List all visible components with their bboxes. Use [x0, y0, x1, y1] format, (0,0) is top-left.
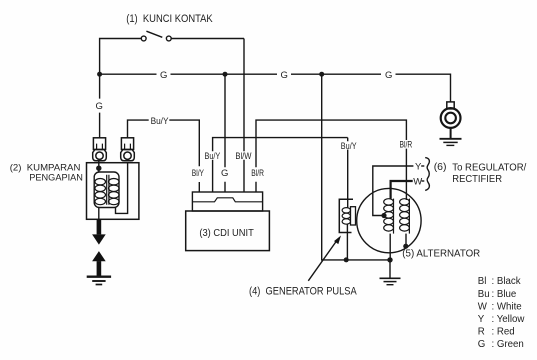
node right coil case dot	[403, 244, 408, 249]
spark gap arrow up	[92, 251, 106, 276]
wire switch to Bl/W drop	[171, 38, 244, 40]
node junction G left	[97, 72, 102, 77]
node junction G mid	[223, 72, 228, 77]
svg-text:G: G	[478, 339, 486, 350]
svg-text:PENGAPIAN: PENGAPIAN	[29, 173, 83, 184]
switch S1 blade	[146, 31, 162, 37]
alternator case circle	[357, 188, 421, 252]
wire G drop to coil	[99, 74, 101, 138]
svg-text:Bl/W: Bl/W	[235, 151, 251, 162]
brace regulator group	[425, 158, 429, 191]
wire Y dash to brace	[421, 165, 424, 167]
svg-text:: Green: : Green	[492, 339, 524, 350]
coil T1 winding outline	[94, 172, 119, 208]
wire Bl/W switch to CDI	[243, 39, 245, 193]
wire Bu/Y drop to pulse generator	[347, 138, 349, 208]
wire Bu/Y CDI to pulse generator	[213, 138, 348, 192]
svg-text:Bu/Y: Bu/Y	[341, 141, 357, 152]
svg-text:: Yellow: : Yellow	[492, 314, 526, 325]
ignition coil T1 box	[87, 163, 139, 220]
alternator right coil	[408, 199, 410, 234]
wire G CDI pin	[224, 74, 226, 192]
svg-text:: Blue: : Blue	[492, 289, 517, 300]
svg-text:(6): (6)	[434, 161, 447, 173]
wire alternator left coil to ground	[389, 234, 391, 260]
svg-text:Bu: Bu	[478, 289, 490, 300]
wire Bl/Y pin stub	[198, 182, 200, 192]
ring terminal ground top right	[447, 102, 454, 109]
CDI connector latch	[192, 198, 262, 202]
pulse generator core	[351, 207, 356, 225]
wire main G bus	[100, 74, 451, 102]
pulse generator bracket	[339, 199, 353, 232]
node junction alternator ground	[387, 257, 392, 262]
svg-text:G: G	[160, 70, 167, 81]
svg-text:W: W	[413, 176, 422, 187]
spark gap arrow down	[92, 219, 106, 244]
switch S1 contact left	[141, 36, 146, 41]
svg-text:RECTIFIER: RECTIFIER	[452, 173, 502, 185]
coil T1 core	[107, 175, 109, 205]
svg-text:G: G	[221, 168, 228, 179]
ground under spark gap	[87, 277, 111, 285]
node coil junction dot	[96, 166, 101, 171]
svg-text:Y: Y	[478, 314, 485, 325]
wire Bl/R CDI to alternator	[256, 120, 406, 200]
ground under ring terminal	[440, 139, 462, 146]
svg-text:Y: Y	[415, 161, 422, 172]
node Y tap dot	[381, 213, 386, 218]
node junction pulse ground	[344, 257, 349, 262]
pulse generator coil loops	[342, 208, 350, 225]
ground below alternator	[389, 260, 391, 278]
coil T1 primary loops	[95, 179, 106, 205]
svg-text:(3) CDI UNIT: (3) CDI UNIT	[199, 227, 254, 239]
wire pulse generator exit	[346, 224, 348, 260]
svg-text:W: W	[478, 301, 488, 312]
legend wire colours	[478, 276, 526, 350]
svg-text:Bl/Y: Bl/Y	[192, 168, 205, 179]
connector terminal right of ignition coil	[121, 138, 135, 161]
svg-text:G: G	[281, 70, 288, 81]
wire Bu/Y coil to CDI	[128, 120, 200, 166]
svg-text:R: R	[478, 327, 485, 338]
svg-text:Bu/Y: Bu/Y	[151, 116, 169, 127]
node junction G right	[319, 72, 324, 77]
wire coil entry	[98, 161, 100, 172]
svg-text:G: G	[385, 70, 392, 81]
wire coil HT output	[98, 208, 100, 220]
wire W lead bold	[391, 181, 413, 199]
svg-text:: Red: : Red	[492, 327, 515, 338]
wire alternator right coil to case	[405, 234, 407, 246]
coil T1 secondary loops	[109, 179, 120, 205]
wire Y tap	[373, 166, 414, 216]
svg-text:Bl/R: Bl/R	[251, 168, 264, 179]
CDI connector block	[192, 192, 262, 211]
arrow pointer to pulse generator	[308, 240, 337, 281]
switch S1 contact right	[166, 36, 171, 41]
svg-text:(4) GENERATOR PULSA: (4) GENERATOR PULSA	[249, 286, 357, 298]
svg-text:Bl/R: Bl/R	[400, 140, 413, 151]
svg-text:Bl: Bl	[478, 276, 487, 287]
svg-text:G: G	[96, 101, 103, 112]
svg-text:To REGULATOR/: To REGULATOR/	[452, 161, 526, 173]
wire W dash to brace	[422, 180, 425, 182]
wire ground return left	[322, 74, 390, 260]
svg-text:(5) ALTERNATOR: (5) ALTERNATOR	[402, 248, 480, 260]
wire switch left riser	[100, 39, 142, 75]
connector terminal left of ignition coil	[93, 138, 107, 161]
wire coil secondary return	[116, 163, 128, 214]
svg-text:: White: : White	[492, 301, 522, 312]
svg-text:(1) KUNCI KONTAK: (1) KUNCI KONTAK	[126, 13, 213, 25]
svg-text:: Black: : Black	[492, 276, 521, 287]
CDI unit U1 box	[186, 211, 270, 251]
alternator left coil	[393, 199, 395, 234]
svg-text:Bu/Y: Bu/Y	[205, 151, 221, 162]
